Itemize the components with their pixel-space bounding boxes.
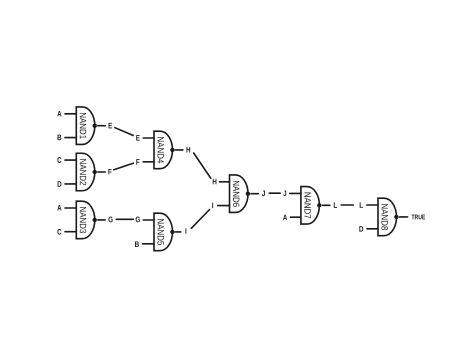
NAND4 output bubble — [170, 148, 174, 152]
NAND2 output bubble — [93, 170, 97, 174]
NAND gate NAND5 — [154, 213, 172, 251]
wire NAND6 output stub (net J) — [251, 193, 258, 195]
input label A (NAND3 pin 1) — [57, 205, 61, 211]
net H label at destination — [213, 179, 217, 185]
net F label at destination — [136, 159, 139, 165]
wire NAND5 output stub (net I) — [175, 231, 180, 233]
NAND gate NAND7 — [301, 187, 319, 225]
NAND3 output bubble — [93, 218, 97, 222]
input label B (NAND5 pin 2) — [135, 241, 139, 247]
NAND6 output bubble — [246, 192, 250, 196]
wire net G to NAND5 pin 1 — [143, 219, 154, 221]
wire NAND3 output stub (net G) — [98, 219, 105, 221]
net L label at source — [334, 202, 337, 208]
input label B (NAND1 pin 2) — [58, 135, 62, 141]
net H label at source — [186, 147, 190, 153]
NAND gate NAND4 — [154, 131, 172, 169]
wire A to NAND7 pin 2 — [291, 216, 301, 218]
wire net H to NAND6 pin 1 — [220, 181, 230, 183]
wire net H diagonal segment — [194, 153, 211, 178]
NAND1 output bubble — [93, 124, 97, 128]
wire A to NAND3 pin 1 — [65, 207, 76, 209]
wire net E to NAND4 pin 1 — [143, 137, 154, 139]
net G label at source — [108, 217, 112, 223]
net E label at source — [109, 123, 113, 129]
net F label at source — [108, 169, 111, 175]
input label A (NAND1 pin 1) — [57, 111, 61, 117]
wire net L horizontal segment — [341, 204, 353, 206]
input label C (NAND2 pin 1) — [57, 157, 61, 163]
NAND gate NAND3 — [76, 201, 95, 239]
net G label at destination — [136, 217, 140, 223]
output node label TRUE — [412, 215, 426, 220]
wire A to NAND1 pin 1 — [65, 113, 76, 115]
wire net L to NAND8 pin 1 — [367, 204, 378, 206]
wire NAND1 output stub (net E) — [98, 125, 105, 127]
wire C to NAND2 pin 1 — [65, 159, 76, 161]
net J label at source — [262, 191, 265, 197]
wire net J to NAND7 pin 1 — [290, 192, 301, 194]
wire net I diagonal segment — [191, 210, 209, 229]
NAND gate NAND2 — [76, 153, 95, 191]
wire net J horizontal segment — [269, 192, 280, 194]
wire B to NAND5 pin 2 — [143, 243, 155, 245]
net I label at source — [184, 228, 187, 234]
wire B to NAND1 pin 2 — [65, 137, 76, 139]
NAND8 output bubble — [394, 215, 398, 219]
wire NAND7 output stub (net L) — [323, 204, 330, 206]
input label D (NAND2 pin 2) — [58, 181, 62, 187]
wire C to NAND3 pin 2 — [65, 231, 76, 233]
NAND7 output bubble — [317, 203, 321, 207]
wire net F to NAND4 pin 2 — [143, 161, 154, 163]
input label A (NAND7 pin 2) — [283, 215, 287, 221]
NAND gate NAND1 — [76, 107, 95, 145]
NAND gate NAND6 — [230, 175, 249, 213]
NAND5 output bubble — [170, 230, 174, 234]
input label C (NAND3 pin 2) — [57, 229, 61, 235]
NAND gate NAND8 — [378, 198, 397, 236]
input label D (NAND8 pin 2) — [359, 226, 363, 232]
net J label at destination — [283, 191, 286, 197]
net E label at destination — [136, 135, 140, 141]
net I label at destination — [211, 203, 214, 209]
wire NAND4 output stub (net H) — [175, 149, 183, 151]
wire NAND2 output stub (net F) — [98, 171, 105, 173]
net L label at destination — [360, 202, 363, 208]
wire NAND8 output stub to TRUE node — [400, 216, 408, 218]
wire D to NAND8 pin 2 — [367, 228, 378, 230]
wire net I to NAND6 pin 2 — [218, 205, 230, 207]
wire D to NAND2 pin 2 — [65, 183, 76, 185]
wire net E diagonal segment — [115, 128, 133, 136]
wire net G horizontal segment — [116, 218, 133, 220]
wire net F diagonal segment — [114, 163, 134, 170]
